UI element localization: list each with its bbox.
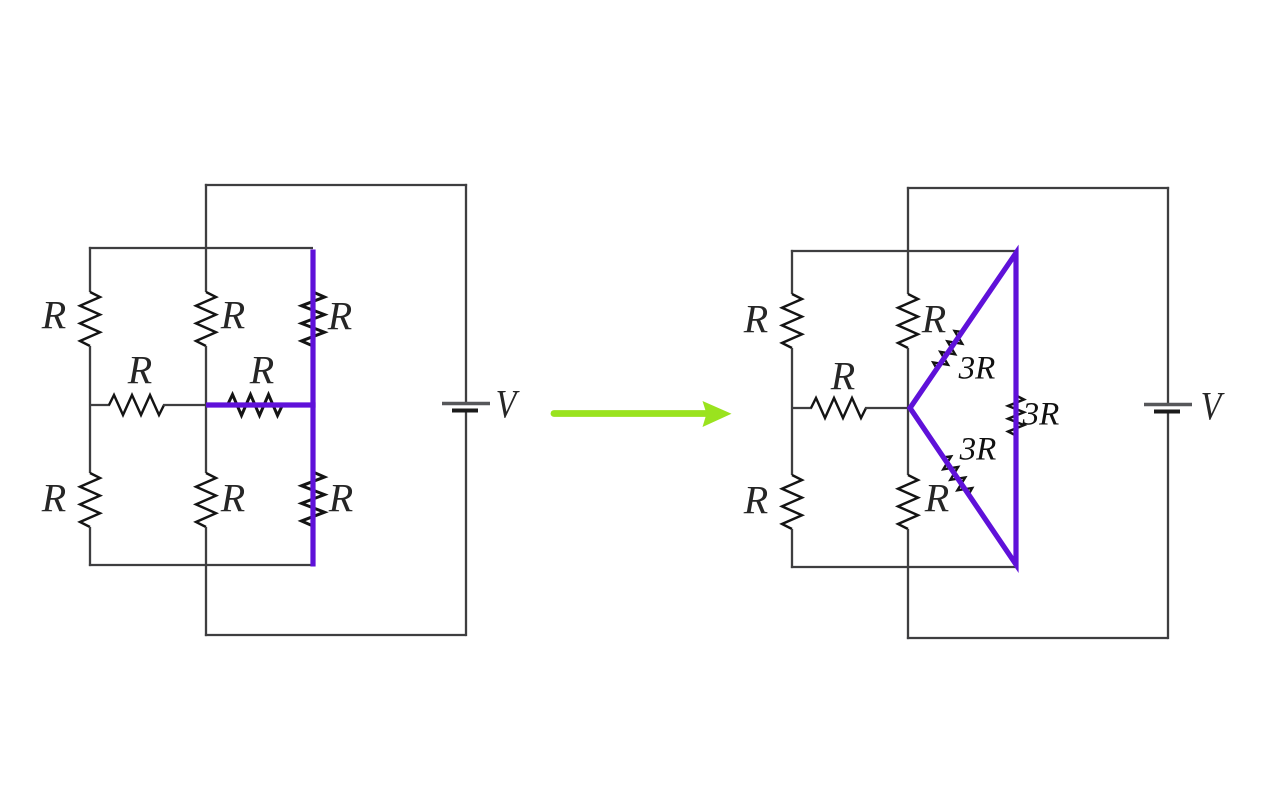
wire purple delta triangle [910, 253, 1016, 565]
wire middle branch upper (left circuit) [205, 184, 207, 292]
wire middle branch center (right circuit) [907, 348, 909, 475]
wire inner rectangle top (left circuit) [89, 247, 313, 249]
wire outer loop right lower (right circuit) [1167, 414, 1169, 640]
svg-text:R: R [127, 348, 152, 393]
svg-text:R: R [743, 297, 768, 342]
battery V2 short plate [1154, 410, 1180, 414]
battery V1 short plate [452, 409, 478, 413]
battery V2 long plate [1144, 403, 1192, 406]
wire inner rectangle bottom (left circuit) [89, 564, 313, 566]
wire outer loop right upper (right circuit) [1167, 187, 1169, 403]
svg-text:R: R [41, 293, 66, 338]
arrow transformation head [703, 401, 732, 427]
wire middle branch center (left circuit) [205, 346, 207, 473]
wire outer loop top (left circuit) [205, 184, 467, 186]
svg-text:R: R [924, 476, 949, 521]
svg-text:3R: 3R [1022, 396, 1060, 432]
svg-text:R: R [327, 294, 352, 339]
resistor R7 zigzag (purple branch bottom, left circuit) [302, 472, 325, 526]
resistor R12 (left branch bottom, right circuit) [782, 475, 802, 529]
resistor R10 (middle branch top, right circuit) [898, 294, 918, 348]
svg-text:R: R [743, 478, 768, 523]
resistor R11 (horizontal, right circuit) [811, 398, 866, 418]
wire purple middle horizontal (left circuit) [206, 402, 316, 407]
wire middle horizontal right segment (right circuit) [865, 407, 909, 409]
resistor R9 (left branch top, right circuit) [782, 294, 802, 348]
wire outer loop right lower (left circuit) [465, 413, 467, 637]
wire middle horizontal right segment (left circuit) [163, 404, 207, 406]
wire purple right branch (left circuit) [310, 250, 315, 567]
wire inner-left branch center (right circuit) [791, 348, 793, 475]
svg-text:R: R [921, 297, 946, 342]
wire middle branch upper (right circuit) [907, 187, 909, 294]
svg-text:R: R [830, 354, 855, 399]
wire outer loop bottom (right circuit) [907, 637, 1168, 639]
wire inner bottom (right circuit) [791, 566, 1016, 568]
svg-text:R: R [220, 293, 245, 338]
resistor R1 (left branch top, left circuit) [80, 292, 100, 346]
wire middle branch lower (left circuit) [205, 527, 207, 636]
resistor R4 (left branch bottom, left circuit) [80, 473, 100, 527]
svg-text:3R: 3R [959, 431, 997, 467]
wire inner-left branch center (left circuit) [89, 346, 91, 473]
resistor R3 (horizontal left, left circuit) [109, 395, 164, 415]
wire inner top (right circuit) [791, 250, 1016, 252]
resistor 3R-b zigzag (lower delta edge) [943, 456, 972, 494]
wire inner-left branch upper (right circuit) [791, 250, 793, 294]
wire inner-left branch lower (right circuit) [791, 529, 793, 568]
resistor R2 (middle branch top, left circuit) [196, 292, 216, 346]
resistor R6 zigzag (purple branch top, left circuit) [302, 292, 325, 346]
resistor R8 zigzag (purple horizontal, left circuit) [228, 395, 283, 416]
resistor 3R-c zigzag (right delta edge) [1008, 396, 1024, 436]
resistor 3R-a zigzag (upper delta edge) [933, 331, 962, 369]
wire outer loop right upper (left circuit) [465, 184, 467, 402]
wire middle branch lower (right circuit) [907, 529, 909, 639]
svg-text:R: R [249, 348, 274, 393]
svg-text:3R: 3R [958, 350, 996, 386]
wire outer loop bottom (left circuit) [205, 634, 466, 636]
wire outer loop top (right circuit) [907, 187, 1169, 189]
battery V1 long plate [442, 402, 490, 405]
arrow transformation shaft [554, 410, 707, 417]
wire middle horizontal left segment (left circuit) [90, 404, 110, 406]
svg-text:R: R [41, 476, 66, 521]
resistor R13 (middle branch bottom, right circuit) [898, 475, 918, 529]
svg-text:R: R [328, 476, 353, 521]
wire inner-left branch lower (left circuit) [89, 527, 91, 566]
svg-text:R: R [220, 476, 245, 521]
wire inner-left branch upper (left circuit) [89, 247, 91, 292]
resistor R5 (middle branch bottom, left circuit) [196, 473, 216, 527]
wire middle horizontal left segment (right circuit) [792, 407, 812, 409]
